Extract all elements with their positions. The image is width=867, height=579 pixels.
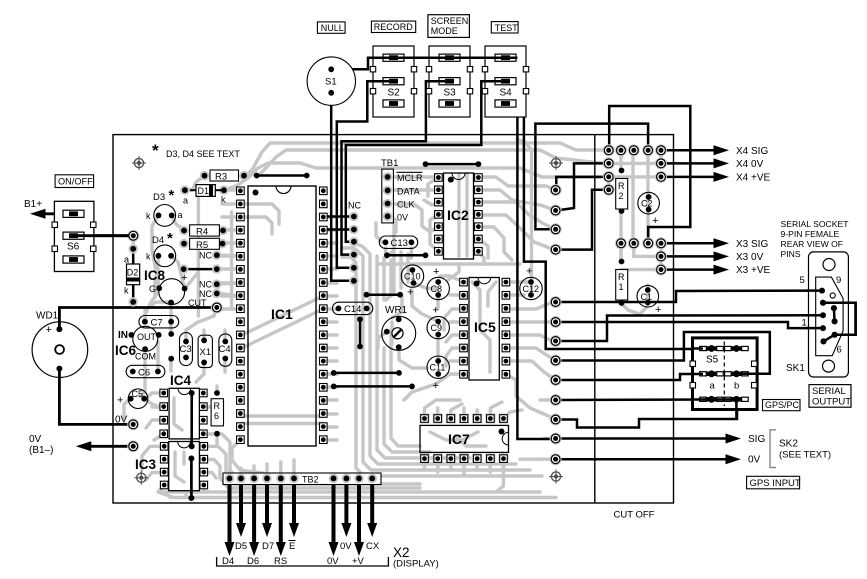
- svg-text:+: +: [652, 215, 658, 227]
- PCB board outline: [113, 135, 674, 503]
- wire: S5 common feed: [524, 117, 712, 349]
- svg-text:MCLR: MCLR: [397, 173, 423, 183]
- svg-text:CX: CX: [366, 541, 380, 552]
- wire: via to S5 a2: [555, 374, 711, 380]
- svg-text:+: +: [46, 324, 52, 336]
- wire: IC1 pin pads to jumper pads: [322, 215, 354, 218]
- wire: X4 pad feed from via: [535, 124, 648, 230]
- wire: S5 branch around to b2: [555, 332, 769, 374]
- svg-text:5: 5: [800, 275, 805, 286]
- resistor R3: [200, 171, 210, 181]
- svg-text:IC1: IC1: [271, 306, 293, 322]
- X3 connector pads: [615, 237, 627, 249]
- svg-text:X4 0V: X4 0V: [736, 159, 764, 170]
- svg-text:C14: C14: [344, 304, 361, 315]
- svg-text:X1: X1: [200, 347, 212, 358]
- wire: via to serial pin 5: [556, 291, 820, 302]
- wire overlay: S6 stub: [74, 234, 129, 237]
- svg-text:C12: C12: [523, 284, 540, 294]
- svg-text:CUT OFF: CUT OFF: [614, 510, 655, 521]
- X4 row2 row3 pads: [603, 157, 615, 169]
- svg-text:C7: C7: [151, 318, 163, 329]
- capacitor C1: [637, 285, 659, 307]
- svg-text:0V: 0V: [29, 434, 42, 445]
- svg-text:(B1–): (B1–): [29, 445, 53, 456]
- svg-text:D2: D2: [127, 268, 139, 278]
- svg-text:k: k: [124, 286, 129, 296]
- jumper pads right of IC1: [349, 212, 359, 222]
- terminal block TB2: [223, 473, 381, 485]
- svg-text:b: b: [734, 381, 739, 392]
- svg-text:CLK: CLK: [397, 200, 415, 210]
- svg-text:X4 +VE: X4 +VE: [736, 172, 771, 183]
- svg-text:C9: C9: [431, 323, 443, 333]
- wire overlay: serial socket pin leads: [806, 289, 820, 292]
- arrow X4 0V: [661, 162, 717, 165]
- svg-text:k: k: [146, 211, 151, 221]
- wire: 4th pad to via: [556, 190, 609, 250]
- svg-text:SK1: SK1: [786, 363, 805, 374]
- pushbutton S1: [307, 57, 355, 105]
- svg-text:NULL: NULL: [321, 23, 344, 33]
- mounting hole fiducial bottom-left: [134, 471, 148, 485]
- svg-text:S6: S6: [67, 242, 80, 253]
- svg-text:+: +: [433, 380, 439, 392]
- svg-text:(DISPLAY): (DISPLAY): [393, 559, 439, 570]
- label RECORD: [371, 21, 415, 32]
- crystal X1: [198, 335, 212, 367]
- svg-text:CUT: CUT: [188, 298, 207, 308]
- wire: X4 0V pad to via: [556, 163, 608, 210]
- wire: S6 centre to board: [81, 234, 133, 237]
- mounting hole fiducial top-right: [549, 156, 563, 170]
- label SERIAL OUTPUT: [809, 385, 851, 408]
- svg-text:D3, D4 SEE TEXT: D3, D4 SEE TEXT: [166, 149, 240, 159]
- svg-text:REAR VIEW OF: REAR VIEW OF: [781, 239, 844, 249]
- slide switch S4: [485, 46, 526, 117]
- svg-text:X3 +VE: X3 +VE: [736, 265, 771, 276]
- mounting hole fiducial top-left: [132, 156, 146, 170]
- svg-text:TB2: TB2: [302, 475, 319, 485]
- capacitor C7: [139, 316, 179, 328]
- wire: X4 +VE pad to via: [556, 177, 608, 190]
- capacitor C6: [126, 365, 165, 377]
- svg-text:a: a: [178, 210, 183, 220]
- slide switch S3: [429, 46, 470, 117]
- svg-text:B1+: B1+: [24, 199, 42, 210]
- svg-text:0V: 0V: [748, 455, 761, 466]
- arrow SIG (GPS): [555, 437, 729, 440]
- svg-text:0V: 0V: [397, 212, 408, 222]
- svg-text:+: +: [117, 395, 123, 407]
- svg-text:9: 9: [836, 275, 841, 286]
- svg-text:IC8: IC8: [144, 268, 166, 283]
- svg-text:*: *: [152, 141, 159, 160]
- svg-text:WR1: WR1: [385, 305, 408, 316]
- label SCREEN MODE: [428, 15, 470, 38]
- wire: TB1 top link: [426, 163, 479, 166]
- svg-text:R4: R4: [196, 227, 208, 238]
- arrow X4 +VE: [661, 176, 717, 179]
- svg-text:+: +: [407, 287, 413, 299]
- arrow X3 SIG: [661, 242, 717, 245]
- svg-text:D3: D3: [153, 192, 165, 203]
- svg-text:+: +: [433, 305, 439, 317]
- svg-text:C5: C5: [132, 389, 144, 399]
- wire overlay: WD1 stubs: [58, 322, 61, 329]
- svg-text:D4: D4: [152, 235, 164, 246]
- capacitor C4: [219, 334, 232, 366]
- wire: S1 bottom to IC1 pad bus: [59, 81, 855, 498]
- svg-text:C2: C2: [641, 199, 653, 209]
- wire: TB1 bottom link: [387, 254, 426, 257]
- svg-text:R: R: [618, 272, 625, 282]
- label ON/OFF: [55, 175, 94, 188]
- label NULL: [317, 22, 345, 33]
- svg-text:R: R: [618, 181, 625, 191]
- wire: IC3 down: [190, 458, 193, 498]
- wire overlay: switch top bus: [59, 58, 855, 498]
- wire: WD1 plus lead: [59, 308, 216, 330]
- via for S6 wire: [127, 230, 139, 242]
- wire: IC1 right to WR1 area pads: [334, 372, 399, 375]
- capacitor C10: [401, 265, 423, 287]
- wire: WD1 minus lead to 0V pad: [59, 369, 133, 425]
- svg-text:NC: NC: [348, 201, 361, 211]
- svg-text:ON/OFF: ON/OFF: [58, 177, 93, 187]
- capacitor C3: [180, 333, 193, 366]
- IC IC7: [420, 425, 509, 452]
- label SK2 bracket: [770, 430, 776, 468]
- svg-text:a: a: [710, 381, 716, 392]
- wire: via to serial pin 2: [556, 315, 821, 341]
- svg-text:SERIAL: SERIAL: [812, 386, 846, 397]
- svg-text:(SEE TEXT): (SEE TEXT): [779, 450, 831, 461]
- wire: switch top bus S1-S2-S3-S4: [331, 58, 556, 439]
- wire overlay: S5 pad stubs: [693, 347, 704, 350]
- svg-text:D5: D5: [235, 541, 247, 552]
- svg-text:S2: S2: [388, 88, 401, 99]
- resistor R5: [179, 239, 189, 249]
- diode D1: [180, 185, 190, 195]
- IC IC1: [248, 186, 316, 446]
- X2 bracket: [217, 557, 389, 566]
- IC IC5: [469, 278, 499, 381]
- pads near C14 wire: [357, 316, 363, 322]
- label GPS INPUT: [747, 476, 800, 489]
- svg-text:C10: C10: [404, 272, 421, 282]
- svg-text:IC3: IC3: [135, 457, 157, 472]
- svg-text:GPS INPUT: GPS INPUT: [750, 478, 801, 489]
- svg-text:G: G: [149, 284, 156, 294]
- svg-text:6: 6: [214, 411, 219, 421]
- via column: [550, 184, 562, 196]
- svg-text:OUTPUT: OUTPUT: [812, 397, 851, 408]
- mounting hole fiducial bottom-right: [549, 470, 563, 484]
- svg-text:a: a: [183, 196, 188, 206]
- svg-text:E: E: [289, 541, 295, 552]
- svg-text:SK2: SK2: [779, 439, 798, 450]
- slide switch S2: [373, 46, 414, 117]
- slide switch S5: [693, 338, 758, 410]
- label TEST: [491, 22, 518, 33]
- svg-text:SERIAL SOCKET: SERIAL SOCKET: [781, 219, 850, 229]
- wire overlay: IC4-IC3 link: [190, 393, 193, 446]
- svg-text:GPS/PC: GPS/PC: [765, 400, 800, 410]
- X2 display connector arrows: [228, 484, 232, 544]
- overlay pads: [57, 326, 63, 332]
- svg-text:*: *: [167, 230, 173, 247]
- wire end pads IC3/IC4: [189, 390, 195, 396]
- capacitor C2: [638, 192, 660, 214]
- svg-text:SIG: SIG: [748, 434, 765, 445]
- wire: IC4 to IC3: [190, 393, 193, 446]
- svg-text:+: +: [655, 304, 661, 316]
- svg-text:R: R: [214, 401, 221, 411]
- svg-text:6: 6: [837, 345, 842, 356]
- wire: pad to pad near C10: [367, 293, 401, 296]
- svg-text:IC6: IC6: [115, 343, 137, 358]
- pad ring WD1 wire end: [211, 302, 223, 314]
- svg-text:1: 1: [619, 282, 624, 292]
- capacitor C14: [332, 302, 372, 314]
- cut-off boundary line: [594, 135, 596, 503]
- svg-text:R5: R5: [196, 240, 208, 251]
- wire: R3 to pad: [257, 174, 307, 177]
- svg-text:DATA: DATA: [397, 186, 420, 196]
- resistor R6: [214, 390, 220, 396]
- arrow 0V (GPS): [555, 458, 729, 461]
- arrow X4 SIG: [661, 149, 717, 152]
- wire: serial socket pin bracket: [823, 303, 856, 335]
- IC IC2: [444, 173, 474, 259]
- svg-text:C6: C6: [138, 367, 150, 378]
- svg-text:TEST: TEST: [495, 23, 519, 33]
- svg-text:+: +: [433, 266, 439, 278]
- wire overlay: S2 S3 S4 centre stubs: [373, 80, 395, 83]
- svg-text:C11: C11: [430, 363, 446, 373]
- svg-text:X3 SIG: X3 SIG: [736, 239, 768, 250]
- svg-text:C8: C8: [431, 284, 443, 294]
- svg-text:SCREEN: SCREEN: [431, 16, 469, 26]
- svg-text:*: *: [169, 187, 175, 204]
- diode D2: [128, 244, 138, 254]
- svg-text:+: +: [181, 272, 187, 284]
- resistor R4: [179, 226, 189, 236]
- svg-text:9-PIN FEMALE: 9-PIN FEMALE: [781, 229, 840, 239]
- svg-text:+: +: [526, 266, 532, 278]
- svg-text:0V: 0V: [340, 541, 352, 552]
- capacitor C11: [427, 356, 449, 378]
- wire: S2 centre contact down to pad: [337, 81, 383, 268]
- arrow X3 +VE: [661, 268, 717, 271]
- wire: via to S5 b3 stepped: [555, 400, 737, 428]
- resistor R2: [619, 168, 625, 174]
- PCB copper trace layer: [124, 139, 661, 498]
- wire: S4 centre contact down to pad: [346, 81, 495, 242]
- svg-text:R3: R3: [215, 172, 227, 183]
- wire: S3 centre contact down to pad: [342, 81, 440, 254]
- svg-text:a: a: [124, 255, 129, 265]
- svg-text:IN: IN: [118, 330, 128, 341]
- arrow B1+: [42, 212, 66, 215]
- wire: D2 leads: [132, 249, 135, 264]
- svg-text:C1: C1: [641, 292, 653, 302]
- wire: X4 pad feed upper: [609, 106, 690, 243]
- svg-text:C4: C4: [219, 344, 231, 355]
- svg-text:k: k: [221, 195, 226, 205]
- svg-text:X4 SIG: X4 SIG: [736, 146, 768, 157]
- wire: C14 branch: [359, 319, 362, 346]
- svg-text:OUT: OUT: [137, 332, 157, 342]
- svg-text:C3: C3: [180, 344, 192, 355]
- svg-text:0V: 0V: [115, 415, 128, 426]
- wire: IC8 pad link: [184, 268, 217, 271]
- svg-text:S5: S5: [706, 355, 719, 366]
- capacitor C13: [379, 236, 417, 248]
- serial pins: [819, 288, 825, 294]
- resistor R1: [619, 259, 625, 265]
- svg-text:RECORD: RECORD: [374, 22, 414, 32]
- svg-text:D1: D1: [198, 186, 210, 196]
- serial socket SK1 outline: [809, 252, 849, 377]
- svg-text:MODE: MODE: [431, 26, 458, 36]
- svg-text:NC: NC: [199, 251, 212, 261]
- wire pads right of IC6: [168, 331, 174, 337]
- wire: serial pins link vertical: [833, 308, 836, 321]
- X4 connector pads row1: [603, 144, 615, 156]
- svg-text:COM: COM: [135, 352, 156, 362]
- svg-text:TB1: TB1: [381, 158, 398, 169]
- wire: via to serial pin 1: [556, 322, 821, 328]
- svg-text:k: k: [146, 252, 151, 262]
- switch S6: [54, 201, 94, 271]
- svg-text:X3 0V: X3 0V: [736, 252, 764, 263]
- svg-text:D7: D7: [262, 541, 274, 552]
- svg-text:WD1: WD1: [36, 311, 59, 322]
- svg-text:IC5: IC5: [474, 319, 496, 335]
- svg-text:S4: S4: [500, 88, 513, 99]
- wire end pads TB1 links: [423, 161, 429, 167]
- svg-text:IC2: IC2: [447, 207, 469, 223]
- label GPS/PC: [763, 400, 801, 411]
- svg-text:S3: S3: [444, 88, 457, 99]
- svg-text:IC4: IC4: [170, 373, 192, 388]
- wire: serial pins diagonal: [824, 335, 835, 342]
- arrow X3 0V: [661, 255, 717, 258]
- svg-text:2: 2: [619, 191, 624, 201]
- svg-text:PINS: PINS: [781, 249, 801, 259]
- svg-text:C13: C13: [391, 238, 408, 249]
- svg-text:S1: S1: [325, 77, 337, 88]
- svg-text:IC7: IC7: [448, 431, 470, 447]
- arrow 0V B1minus: [88, 445, 133, 448]
- wire: via to S5 a3: [555, 398, 711, 401]
